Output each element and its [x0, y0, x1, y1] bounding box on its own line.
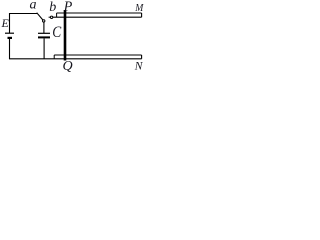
- battery E short plate: [8, 37, 13, 39]
- capacitor C top plate: [38, 32, 50, 34]
- bottom rail upper edge (Q to N): [54, 54, 141, 56]
- bottom rail right end close at N: [141, 55, 143, 59]
- svg-text:Q: Q: [63, 59, 73, 73]
- wire from b merging into top rail lower edge: [53, 16, 142, 18]
- rod PQ on rails: [64, 10, 67, 61]
- bottom rail left end tick: [53, 55, 55, 59]
- svg-text:E: E: [1, 16, 10, 30]
- svg-text:C: C: [52, 24, 61, 41]
- svg-text:M: M: [134, 2, 144, 14]
- background: [0, 0, 146, 73]
- top rail right end close at M: [141, 13, 143, 17]
- wire from pivot down to capacitor: [43, 22, 45, 33]
- svg-text:b: b: [49, 0, 56, 15]
- switch pivot circle: [43, 20, 45, 22]
- top rail left end tick: [56, 13, 58, 17]
- svg-text:P: P: [63, 0, 73, 14]
- contact b circle: [50, 16, 52, 18]
- top rail upper edge (P to M): [57, 12, 142, 14]
- svg-text:N: N: [134, 60, 144, 72]
- wire top from battery to contact a: [9, 13, 37, 15]
- svg-text:a: a: [30, 0, 37, 13]
- wire left vertical (battery top lead): [9, 13, 11, 33]
- wire left vertical (battery bottom lead): [9, 39, 11, 59]
- bottom wire and bottom rail lower edge (battery to N): [9, 58, 142, 60]
- switch blade from contact a to pivot: [37, 13, 43, 20]
- battery E long plate: [5, 32, 14, 34]
- capacitor C bottom plate: [38, 36, 50, 38]
- wire from capacitor down to bottom wire: [43, 39, 45, 59]
- contact b stub: [49, 16, 51, 18]
